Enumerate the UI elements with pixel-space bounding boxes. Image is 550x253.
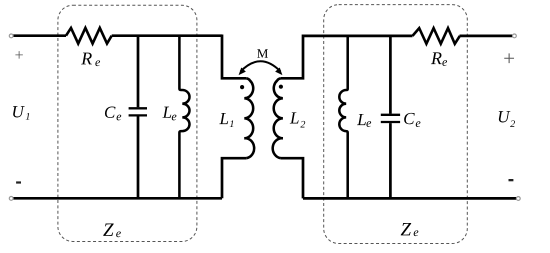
dashed box Ze right — [324, 5, 468, 244]
terminal bottom-right — [516, 197, 520, 201]
wire top-left — [13, 34, 66, 37]
label C_e right — [404, 113, 415, 124]
capacitor C_e left — [137, 35, 140, 199]
label L2 — [290, 112, 299, 123]
wire top-right from transformer — [303, 35, 413, 38]
resistor R_e right — [413, 28, 460, 44]
label L_e left — [162, 107, 171, 118]
label Z_e left — [103, 223, 113, 235]
polarity dot L2 — [279, 85, 283, 89]
inductor L1 (transformer primary) — [244, 78, 254, 158]
wire top-left to transformer — [112, 34, 222, 37]
terminal top-left — [9, 34, 13, 38]
label R_e right — [431, 52, 442, 64]
wire: bottom rail left — [13, 197, 222, 200]
inductor L2 (transformer secondary) — [273, 78, 283, 158]
inductor L_e right — [339, 35, 347, 199]
label U2 — [499, 111, 511, 122]
wire: L1 bottom to bottom-left rail — [222, 158, 246, 198]
resistor R_e left — [66, 28, 112, 44]
label + left — [15, 51, 22, 58]
label - right — [509, 179, 514, 181]
wire: top-left rail down to L1 top — [222, 35, 246, 79]
label M — [257, 49, 268, 58]
label - left — [16, 181, 21, 183]
mutual coupling arrow M — [241, 61, 281, 71]
label + right — [504, 53, 514, 63]
polarity dot L1 — [240, 85, 244, 89]
dashed box Ze left — [58, 5, 197, 241]
wire: L2 bottom to bottom-right rail — [281, 158, 303, 198]
wire top-right to terminal — [460, 35, 513, 38]
label U1 — [13, 106, 25, 117]
capacitor C_e right — [389, 35, 392, 199]
label L_e right — [357, 114, 366, 125]
wire: top-right rail down to L2 top — [281, 35, 303, 79]
label Z_e right — [401, 223, 411, 235]
label R_e left — [81, 53, 92, 65]
wire: bottom rail right — [303, 197, 517, 200]
label C_e left — [105, 107, 116, 118]
inductor L_e left — [179, 35, 189, 199]
terminal bottom-left — [9, 197, 13, 201]
terminal top-right — [513, 34, 517, 38]
label L1 — [219, 113, 228, 124]
